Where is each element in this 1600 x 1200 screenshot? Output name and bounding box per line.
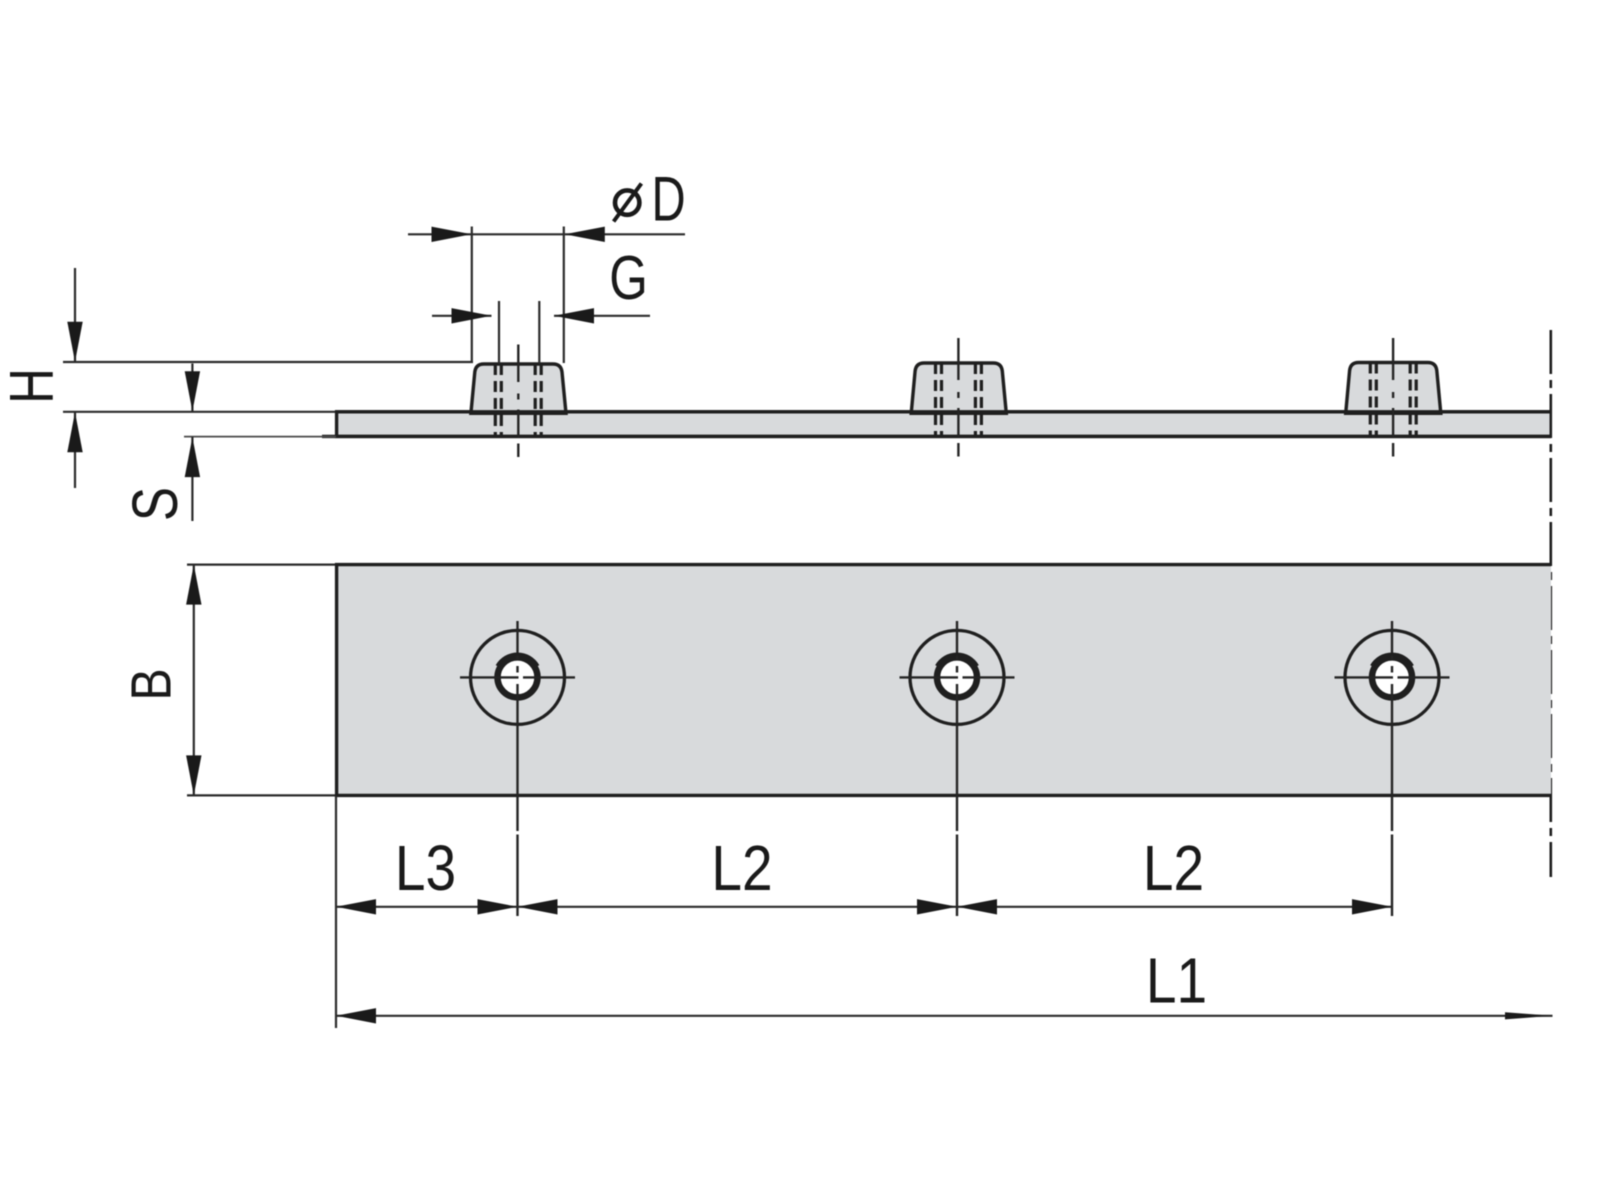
- dimension L2 (second): [957, 899, 1392, 914]
- boss 3 (weld nut, side view): [1346, 363, 1441, 414]
- strip side view body: [337, 412, 1551, 437]
- thread dashed lines boss 3: [1370, 363, 1416, 437]
- center line boss 1: [517, 345, 519, 458]
- hole 2: [900, 621, 1015, 916]
- dimension G: [432, 301, 650, 364]
- svg-text:L2: L2: [1143, 832, 1204, 904]
- plan top extension line: [187, 563, 335, 565]
- dimension L3: [336, 899, 518, 914]
- dimension øD: [408, 227, 685, 364]
- H top reference line: [63, 361, 473, 363]
- svg-text:D: D: [652, 164, 686, 234]
- svg-text:H: H: [0, 368, 66, 404]
- svg-text:L3: L3: [395, 832, 456, 904]
- break / phantom dash-dot line right end: [1550, 330, 1553, 877]
- boss 2 (weld nut, side view): [911, 363, 1006, 413]
- thread dashed lines boss 2: [936, 363, 982, 437]
- svg-text:L2: L2: [711, 832, 772, 904]
- center line boss 3: [1392, 338, 1394, 457]
- dimension B: [186, 565, 201, 796]
- svg-text:L1: L1: [1146, 945, 1207, 1017]
- dimension L2 (first): [518, 899, 958, 914]
- hole 1: [460, 621, 575, 916]
- dimension L1: [336, 1008, 1553, 1023]
- dimension H: [67, 268, 82, 488]
- thread dashed lines boss 1: [495, 364, 541, 437]
- strip bottom edge: [322, 435, 1551, 438]
- plan bottom extension line: [187, 794, 335, 796]
- dimension S: [185, 364, 200, 522]
- left extension line below plate: [335, 796, 337, 1028]
- svg-text:B: B: [120, 668, 184, 700]
- H bottom / strip top extension line: [63, 411, 335, 413]
- boss 1 (weld nut, side view): [471, 364, 566, 413]
- svg-text:S: S: [121, 487, 192, 521]
- hole 3: [1335, 621, 1450, 916]
- S bottom extension line: [184, 436, 336, 438]
- plan view plate: [337, 565, 1551, 796]
- strip top edge (redrawn over bosses): [335, 410, 1551, 413]
- svg-text:G: G: [609, 243, 648, 313]
- label øD: [614, 164, 686, 234]
- center line boss 2: [957, 338, 959, 457]
